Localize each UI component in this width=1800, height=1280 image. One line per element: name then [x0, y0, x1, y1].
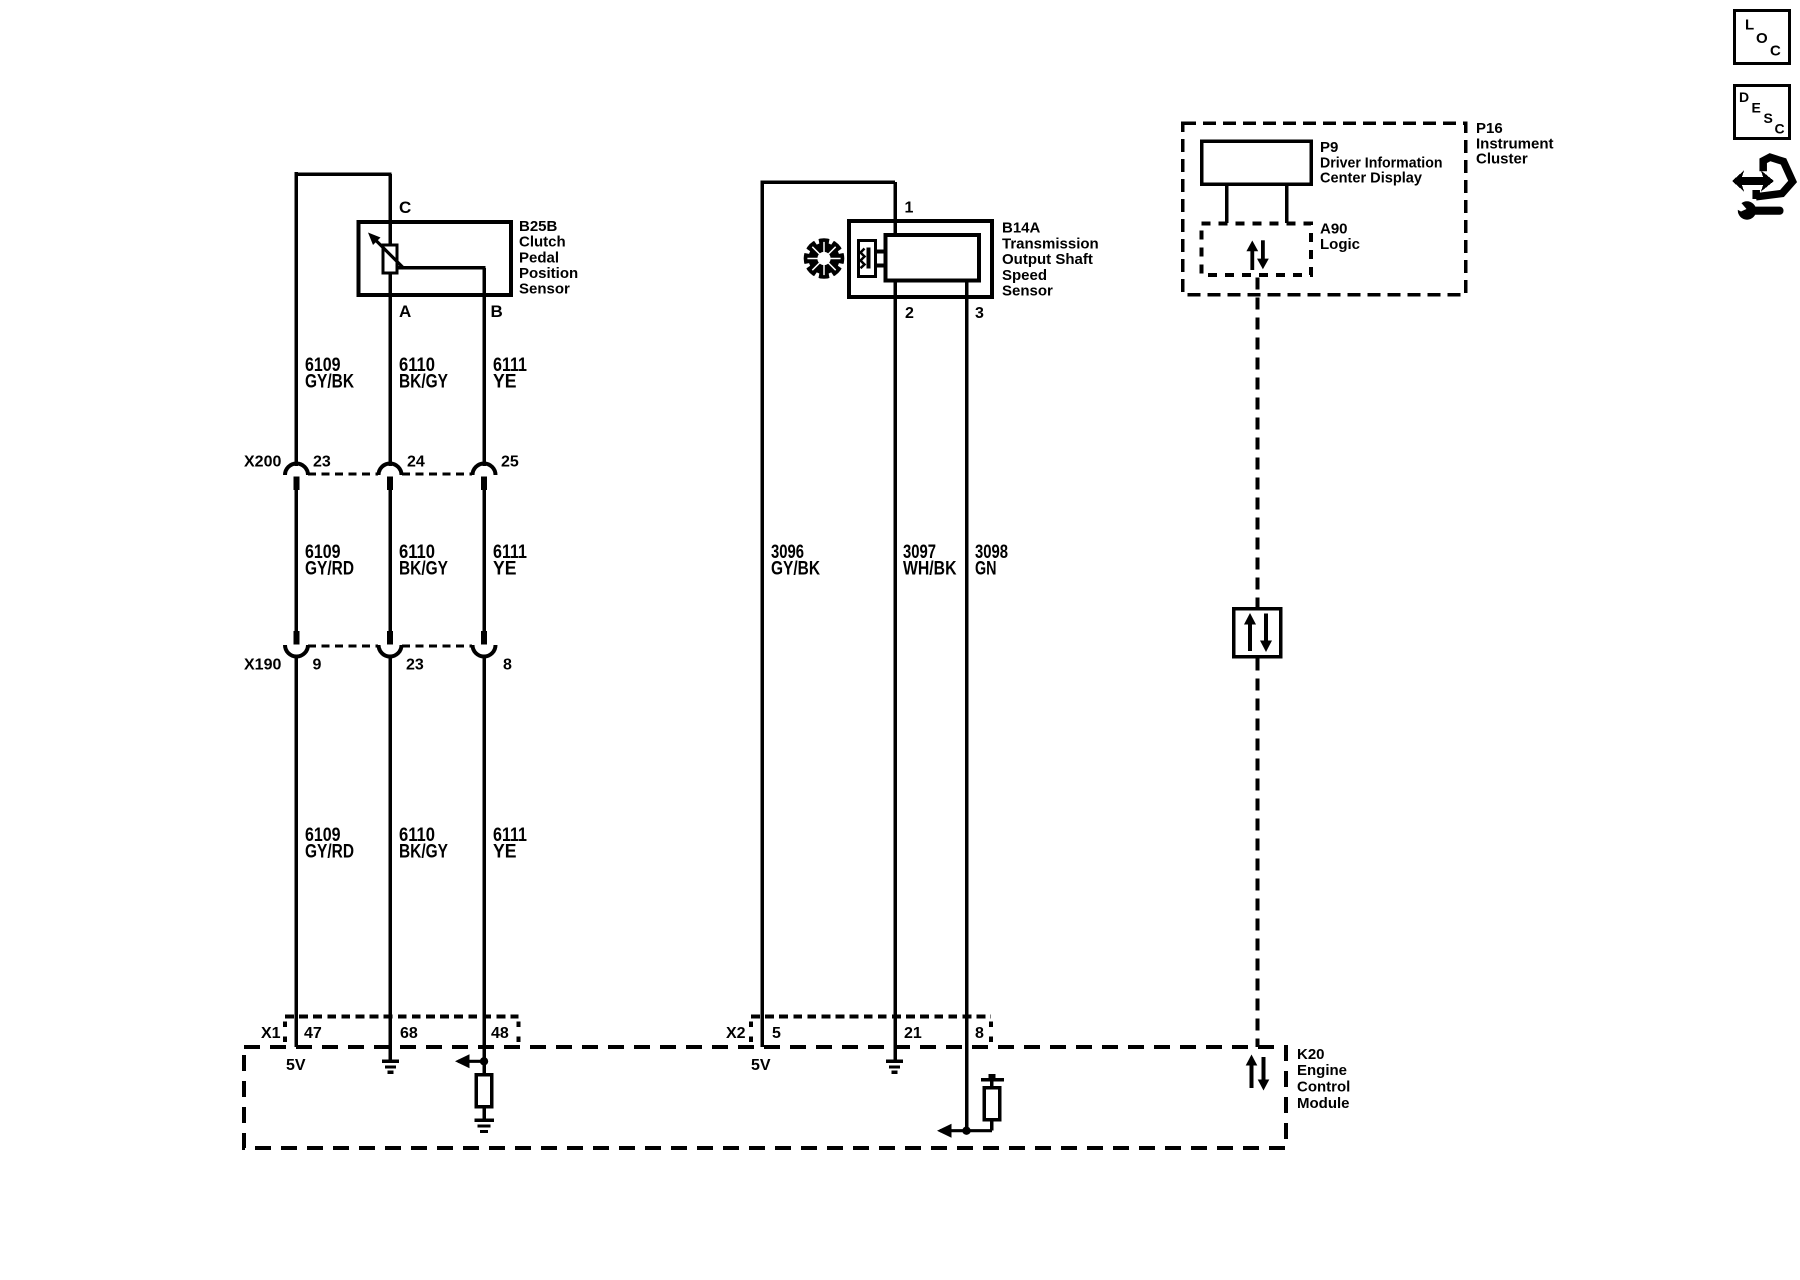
data box down arrow [1260, 614, 1272, 653]
svg-text:Clutch: Clutch [519, 234, 566, 251]
wire: wiper to pin B horizontal [397, 266, 486, 270]
sensor B14A outer box [849, 221, 992, 297]
svg-text:8: 8 [975, 1025, 984, 1042]
wire 6111 YE: X200 pin 25 to X190 pin 8 [482, 490, 486, 632]
label B14A Transmission Output Shaft Speed Sensor [1002, 220, 1099, 300]
wire 3096 GY/BK: B14A pin 1 branch left vertical [760, 180, 764, 1047]
signal arrow at X2 pin 8 [937, 1124, 992, 1138]
svg-text:Cluster: Cluster [1476, 151, 1528, 168]
label K20 Engine Control Module [1297, 1046, 1350, 1112]
resistor (pull-up) in ECM left [476, 1075, 492, 1107]
connector X190 pin 8 arc [473, 645, 496, 657]
logic A90 dashed box [1202, 224, 1312, 276]
label wire 6110 BK/GY (upper) [399, 355, 448, 393]
svg-text:25: 25 [501, 454, 519, 471]
connector X200 pin 25 arc [473, 464, 496, 476]
icon schematic navigation wrench [1731, 199, 1784, 220]
label wire 6111 YE (upper) [493, 355, 527, 393]
connector X2 dotted box top [751, 1015, 991, 1019]
svg-text:X190: X190 [244, 657, 281, 674]
sensor B25B box [359, 222, 512, 295]
dashed link X190 pins 23-8 [402, 645, 472, 648]
svg-text:A: A [399, 302, 411, 321]
connector X190 pin 8 male pin [481, 631, 487, 645]
dashed link X190 pins 9-23 [308, 645, 378, 648]
display P9 box [1202, 141, 1312, 184]
connector X200 pin 24 male pin [387, 477, 393, 491]
connector X1 dotted box left [283, 1022, 287, 1047]
label B25B Clutch Pedal Position Sensor [519, 218, 578, 298]
svg-text:K20: K20 [1297, 1046, 1325, 1063]
label wire 6110 BK/GY (middle) [399, 542, 448, 580]
svg-text:Logic: Logic [1320, 236, 1360, 253]
svg-text:Sensor: Sensor [519, 281, 570, 298]
label wire 3097 WH/BK [903, 542, 957, 580]
wire 6109 GY/RD: X190 pin 9 to ECM X1 pin 47 [295, 657, 299, 1048]
label wire 6109 GY/RD (lower) [305, 825, 354, 863]
svg-text:24: 24 [407, 454, 425, 471]
svg-text:C: C [1775, 121, 1785, 137]
connector X190 pin 9 arc [285, 645, 308, 657]
svg-text:C: C [1770, 43, 1781, 60]
icon schematic navigation double-headed arrow [1732, 171, 1774, 192]
wire 6111 YE: X190 pin 8 to ECM X1 pin 48 [482, 657, 486, 1076]
svg-text:YE: YE [493, 559, 517, 580]
data box up arrow [1244, 613, 1256, 651]
connector X200 pin 24 arc [379, 464, 402, 476]
resistor (pull-up) in ECM middle [981, 1074, 1004, 1131]
connector X190 pin 9 male pin [294, 631, 300, 645]
icon LOC box [1735, 11, 1790, 64]
svg-text:GN: GN [975, 559, 997, 580]
wire 6109 GY/RD: X200 pin 23 to X190 pin 9 [295, 490, 299, 632]
ECM serial data down arrow [1258, 1057, 1270, 1091]
svg-text:23: 23 [313, 454, 331, 471]
label wire 6111 YE (middle) [493, 542, 527, 580]
svg-text:X1: X1 [261, 1025, 281, 1042]
svg-text:1: 1 [905, 200, 914, 217]
label P16 Instrument Cluster [1476, 120, 1554, 168]
wire 6109 GY/BK: B25B pin C riser (up from box) [388, 174, 392, 247]
svg-text:D: D [1739, 89, 1749, 105]
wire 3097 WH/BK: B14A pin 2 to ECM X2 pin 21 [893, 282, 897, 1060]
svg-text:YE: YE [493, 372, 517, 393]
svg-text:9: 9 [313, 657, 322, 674]
svg-text:5V: 5V [751, 1057, 771, 1074]
svg-text:L: L [1745, 17, 1754, 34]
wire 6109 GY/BK: left vertical down to X200 pin 23 [295, 172, 299, 466]
svg-text:Pedal: Pedal [519, 249, 559, 266]
connector X190 pin 23 arc [379, 645, 402, 657]
junction dot X1 pin 48 [480, 1057, 488, 1065]
label wire 6109 GY/RD (middle) [305, 542, 354, 580]
ground symbol under left resistor [475, 1119, 495, 1134]
icon schematic navigation hook arrow [1756, 157, 1793, 199]
svg-text:3: 3 [975, 305, 984, 322]
stub: element box to inner box (upper) [876, 250, 886, 254]
svg-text:C: C [399, 198, 411, 217]
label wire 6110 BK/GY (lower) [399, 825, 448, 863]
connector X200 pin 25 male pin [481, 477, 487, 491]
svg-text:Control: Control [1297, 1079, 1350, 1096]
connector X1 dotted box top [285, 1015, 519, 1019]
A90 serial data down arrow [1257, 240, 1269, 269]
svg-text:Engine: Engine [1297, 1062, 1347, 1079]
gear icon [802, 236, 847, 281]
svg-text:Center Display: Center Display [1320, 170, 1423, 187]
B14A pickup element small box [859, 241, 876, 277]
P9 leg right [1285, 184, 1289, 223]
svg-text:BK/GY: BK/GY [399, 842, 448, 863]
svg-text:8: 8 [503, 657, 512, 674]
connector X2 dotted box left [749, 1022, 753, 1047]
wire 3096 GY/BK: top horizontal [760, 180, 895, 184]
wire 3098 GN: B14A pin 3 to ECM X2 pin 8 [965, 282, 969, 1131]
label A90 Logic [1320, 220, 1360, 252]
svg-text:BK/GY: BK/GY [399, 372, 448, 393]
ground symbol at X2 pin 21 [886, 1060, 903, 1074]
wire 6110 BK/GY: X200 pin 24 to X190 pin 23 [388, 490, 392, 632]
svg-text:B14A: B14A [1002, 220, 1041, 237]
wire 6110 BK/GY: pin A down to X200 pin 24 [388, 273, 392, 466]
wire 3096 GY/BK: pin 1 drop into sensor [893, 182, 897, 237]
junction dot X2 pin 8 [962, 1127, 970, 1135]
svg-text:2: 2 [905, 305, 914, 322]
svg-text:GY/BK: GY/BK [771, 559, 820, 580]
connector X2 dotted box right [989, 1022, 993, 1047]
svg-text:GY/RD: GY/RD [305, 842, 354, 863]
svg-text:X200: X200 [244, 454, 281, 471]
svg-text:Position: Position [519, 265, 578, 282]
wire 6110 BK/GY: X190 pin 23 to ECM X1 pin 68 [388, 657, 392, 1061]
svg-text:B25B: B25B [519, 218, 558, 235]
svg-text:YE: YE [493, 842, 517, 863]
instrument cluster P16 dashed box [1183, 123, 1466, 295]
wire resistor to ground [482, 1107, 486, 1120]
connector X1 dotted box right [517, 1022, 521, 1047]
potentiometer wiper arrow [368, 233, 404, 269]
ECM K20 dashed box [244, 1047, 1286, 1148]
dashed link X200 pins 23-24 [308, 473, 378, 476]
icon DESC box [1735, 86, 1790, 139]
connector X200 pin 23 male pin [294, 477, 300, 491]
sensor B14A inner element box [886, 235, 980, 281]
svg-text:S: S [1764, 110, 1773, 126]
label wire 6109 GY/BK (upper) [305, 355, 354, 393]
svg-text:5V: 5V [286, 1057, 306, 1074]
dashed serial data wire: data box to ECM [1256, 659, 1260, 1048]
wire 6111 YE: pin B down to X200 pin 25 [482, 268, 486, 466]
connector X190 pin 23 male pin [387, 631, 393, 645]
label wire 3096 GY/BK [771, 542, 820, 580]
ground symbol at X1 pin 68 [382, 1060, 399, 1074]
label wire 3098 GN [975, 542, 1008, 580]
svg-text:X2: X2 [726, 1025, 746, 1042]
svg-text:23: 23 [406, 657, 424, 674]
svg-text:WH/BK: WH/BK [903, 559, 957, 580]
svg-text:GY/RD: GY/RD [305, 559, 354, 580]
svg-text:47: 47 [304, 1025, 322, 1042]
ECM serial data up arrow [1246, 1055, 1258, 1089]
svg-text:Module: Module [1297, 1095, 1350, 1112]
svg-text:Speed: Speed [1002, 267, 1047, 284]
svg-text:O: O [1756, 30, 1768, 47]
svg-text:5: 5 [772, 1025, 781, 1042]
P9 leg left [1225, 184, 1229, 223]
svg-text:B: B [491, 302, 503, 321]
signal arrow at X1 pin 48 [455, 1054, 484, 1068]
svg-text:68: 68 [400, 1025, 418, 1042]
serial data box with arrows [1234, 609, 1281, 657]
label P9 Driver Information Center Display [1320, 139, 1443, 187]
connector X200 pin 23 arc [285, 464, 308, 476]
svg-text:E: E [1752, 100, 1761, 116]
dashed serial data wire: A90 to data box [1256, 278, 1260, 608]
A90 serial data up arrow [1246, 241, 1258, 271]
svg-text:Output Shaft: Output Shaft [1002, 251, 1093, 268]
wire 6109 GY/BK: top horizontal [295, 172, 392, 176]
svg-text:Transmission: Transmission [1002, 235, 1099, 252]
stub: element box to inner box (lower) [876, 264, 886, 268]
svg-text:Sensor: Sensor [1002, 283, 1053, 300]
potentiometer element B25B [383, 245, 397, 273]
dashed link X200 pins 24-25 [402, 473, 472, 476]
svg-text:48: 48 [491, 1025, 509, 1042]
svg-text:21: 21 [904, 1025, 922, 1042]
svg-text:BK/GY: BK/GY [399, 559, 448, 580]
svg-text:GY/BK: GY/BK [305, 372, 354, 393]
label wire 6111 YE (lower) [493, 825, 527, 863]
